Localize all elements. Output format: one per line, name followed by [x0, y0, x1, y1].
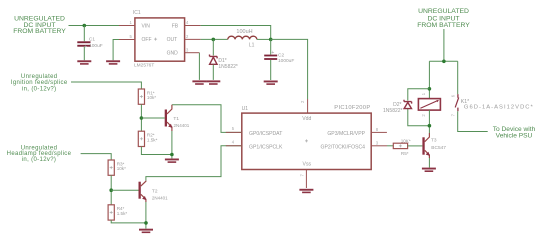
wire pin3 to R5	[387, 145, 393, 147]
wire to relay coil top	[428, 61, 430, 98]
wire to switch contact	[457, 61, 459, 94]
wire C1 branch	[83, 26, 85, 42]
node VBATT label right: UNREGULATED DC INPUT FROM BATTERY	[417, 8, 470, 29]
node output label: To Device with Vehicle PSU	[493, 126, 536, 140]
svg-text:T2: T2	[152, 188, 158, 194]
svg-text:LM2576T: LM2576T	[134, 63, 154, 69]
node junction relay top / D2	[428, 87, 432, 91]
node VBATT label left: UNREGULATED DC INPUT FROM BATTERY	[13, 16, 66, 35]
switch K1 contact G6D-1A-ASI12VDC	[450, 94, 534, 116]
node Ignition input label	[11, 74, 68, 92]
svg-text:Ignition feed/splice: Ignition feed/splice	[11, 80, 68, 86]
svg-text:GP1/ICSPCLK: GP1/ICSPCLK	[249, 144, 283, 150]
wire split rail	[429, 60, 457, 62]
svg-text:R5*: R5*	[401, 151, 409, 156]
svg-text:1000uF: 1000uF	[278, 58, 294, 64]
pin stub U1 Vdd pin 2	[307, 99, 309, 113]
svg-text:in, (0-12v?): in, (0-12v?)	[22, 157, 57, 163]
wire T1 emitter down	[171, 131, 173, 158]
svg-text:IC1: IC1	[133, 10, 141, 16]
svg-text:GND: GND	[167, 50, 179, 56]
svg-text:FROM BATTERY: FROM BATTERY	[417, 22, 470, 29]
inductor L1 100uH	[228, 29, 257, 48]
svg-text:1N5822*: 1N5822*	[218, 64, 238, 70]
wire T2 collector to U1 GP1 pin 4	[146, 146, 242, 181]
svg-text:GP3/MCLR/VPP: GP3/MCLR/VPP	[327, 131, 365, 137]
svg-text:OFF: OFF	[142, 37, 152, 43]
wire T2 base	[111, 189, 138, 191]
resistor R4 1.5k	[108, 205, 127, 220]
wire R3 to node, node to R4	[110, 175, 112, 205]
svg-text:D2*: D2*	[393, 102, 401, 108]
node junction R3/R4/T2 base	[109, 188, 113, 192]
svg-text:U1: U1	[242, 106, 249, 112]
resistor R5 10K	[393, 138, 411, 156]
pin stub U1 Vss pin 7	[305, 170, 307, 189]
resistor R2 1.5k	[138, 131, 157, 146]
svg-text:VIN: VIN	[142, 23, 151, 29]
node junction VCC (L1/FB/C2/Vdd)	[269, 38, 273, 42]
wire VBATT rail to IC1 VIN	[69, 25, 120, 27]
wire R2 bottom to emitter node	[141, 147, 172, 155]
svg-text:10k*: 10k*	[117, 166, 126, 171]
svg-text:Vss: Vss	[303, 162, 312, 168]
node junction D1 tap	[212, 38, 216, 42]
svg-text:2N4401: 2N4401	[174, 123, 190, 128]
wire T1 collector to U1 GP0 pin 5	[172, 105, 242, 133]
wire OUT net to L1	[201, 38, 228, 40]
node junction relay bottom / D2 / T3 collector	[428, 124, 432, 128]
capacitor C1 100uF	[77, 36, 102, 50]
pin stub IC1 GND	[185, 52, 200, 54]
wire VBATT right feed down	[443, 29, 445, 61]
IC U1 PIC10F200P	[242, 105, 372, 170]
svg-text:OUT: OUT	[167, 37, 178, 43]
ground under D1	[206, 80, 220, 84]
svg-text:GP2/T0CKI/FOSC4: GP2/T0CKI/FOSC4	[321, 144, 366, 150]
wire D2 branch	[408, 89, 430, 101]
wire D1 branch upper	[212, 39, 214, 55]
wire switch to output	[458, 111, 488, 131]
wire VCC to U1 Vdd	[271, 39, 308, 99]
svg-text:BC547: BC547	[431, 145, 446, 151]
wire IC1 GND to ground	[198, 53, 200, 80]
wire relay coil bottom	[428, 110, 430, 133]
svg-text:100uH: 100uH	[236, 29, 252, 35]
svg-text:L1: L1	[249, 43, 255, 49]
transistor T1 2N4401	[165, 105, 190, 131]
transistor T3 BC547	[422, 133, 446, 158]
svg-text:in, (0-12v?): in, (0-12v?)	[22, 86, 57, 92]
pin stub IC1 VIN	[119, 25, 135, 27]
svg-text:GP0/ICSPDAT: GP0/ICSPDAT	[249, 131, 282, 137]
svg-text:FB: FB	[172, 23, 179, 29]
svg-text:Vehicle PSU: Vehicle PSU	[496, 132, 533, 139]
ground under U1 Vss	[299, 189, 313, 193]
node junction split	[442, 60, 446, 64]
wire IC1 OFF pin to ground	[113, 40, 135, 61]
pin stub IC1 OUT	[185, 38, 201, 40]
svg-text:T1: T1	[173, 116, 179, 122]
node junction C1 tap	[83, 24, 87, 28]
relay coil K1	[418, 92, 440, 116]
svg-text:2N4401: 2N4401	[152, 196, 168, 201]
svg-text:UNREGULATED: UNREGULATED	[418, 8, 469, 15]
diode D2 1N5822	[383, 100, 412, 114]
ground under T3 emitter	[422, 168, 436, 172]
wire T1 base	[141, 117, 164, 119]
pin stub IC1 OFF	[119, 39, 135, 41]
svg-text:C1: C1	[89, 36, 95, 42]
wire R4 bottom to emitter node	[111, 220, 146, 223]
ground under OFF pin	[106, 60, 120, 64]
svg-text:10K*: 10K*	[401, 138, 411, 143]
wire T3 emitter to ground	[428, 158, 430, 168]
svg-text:1.5k*: 1.5k*	[117, 211, 128, 216]
node Headlamp input label	[7, 145, 72, 163]
svg-text:G6D-1A-ASI12VDC*: G6D-1A-ASI12VDC*	[464, 105, 534, 111]
wire ignition input to R1	[71, 82, 141, 89]
ground under T1 emitter	[165, 159, 179, 163]
pin stub U1 GP3 pin 8 unconnected	[371, 131, 387, 133]
svg-text:10k*: 10k*	[147, 95, 156, 100]
ground under IC1 GND	[192, 80, 206, 84]
wire headlamp input to R3	[81, 154, 112, 160]
svg-text:1N5822*: 1N5822*	[383, 108, 403, 114]
node junction R1/R2/T1 base	[140, 116, 144, 120]
svg-text:FROM BATTERY: FROM BATTERY	[13, 28, 66, 35]
wire C2 branch	[270, 39, 272, 54]
svg-text:C2: C2	[278, 53, 284, 59]
wire T2 emitter down	[145, 202, 147, 229]
wire C1 to ground	[83, 47, 85, 61]
svg-text:Vdd: Vdd	[302, 116, 311, 122]
op-amp/regulator IC1 LM2576T	[130, 10, 190, 69]
svg-text:PIC10F200P: PIC10F200P	[334, 105, 370, 111]
pin stub IC1 FB	[185, 25, 201, 27]
wire L1 to VCC node	[257, 38, 271, 40]
resistor R3 10k	[108, 160, 126, 175]
ground under T2 emitter	[139, 229, 153, 233]
svg-text:+: +	[271, 50, 274, 56]
ground under C1	[77, 60, 91, 64]
svg-text:100uF: 100uF	[89, 43, 103, 49]
wire R1 to node, node to R2	[140, 104, 142, 131]
transistor T2 2N4401	[139, 181, 169, 202]
svg-text:Unregulated: Unregulated	[21, 74, 58, 80]
wire D1 to ground	[212, 65, 214, 80]
wire R5 to T3 base	[408, 145, 423, 147]
svg-text:T3: T3	[431, 138, 437, 144]
wire FB net	[201, 26, 271, 40]
resistor R1 10k	[138, 89, 156, 104]
capacitor C2 1000uF	[264, 50, 294, 64]
pin stub U1 GP2 pin 3	[371, 145, 387, 147]
diode D1 1N5822	[210, 55, 238, 70]
node junction T1 emitter / R2	[170, 153, 174, 157]
ground under C2	[264, 81, 278, 85]
node junction T2 emitter / R4	[144, 221, 148, 225]
svg-text:1.5k*: 1.5k*	[147, 137, 158, 142]
wire C2 to ground	[270, 60, 272, 80]
